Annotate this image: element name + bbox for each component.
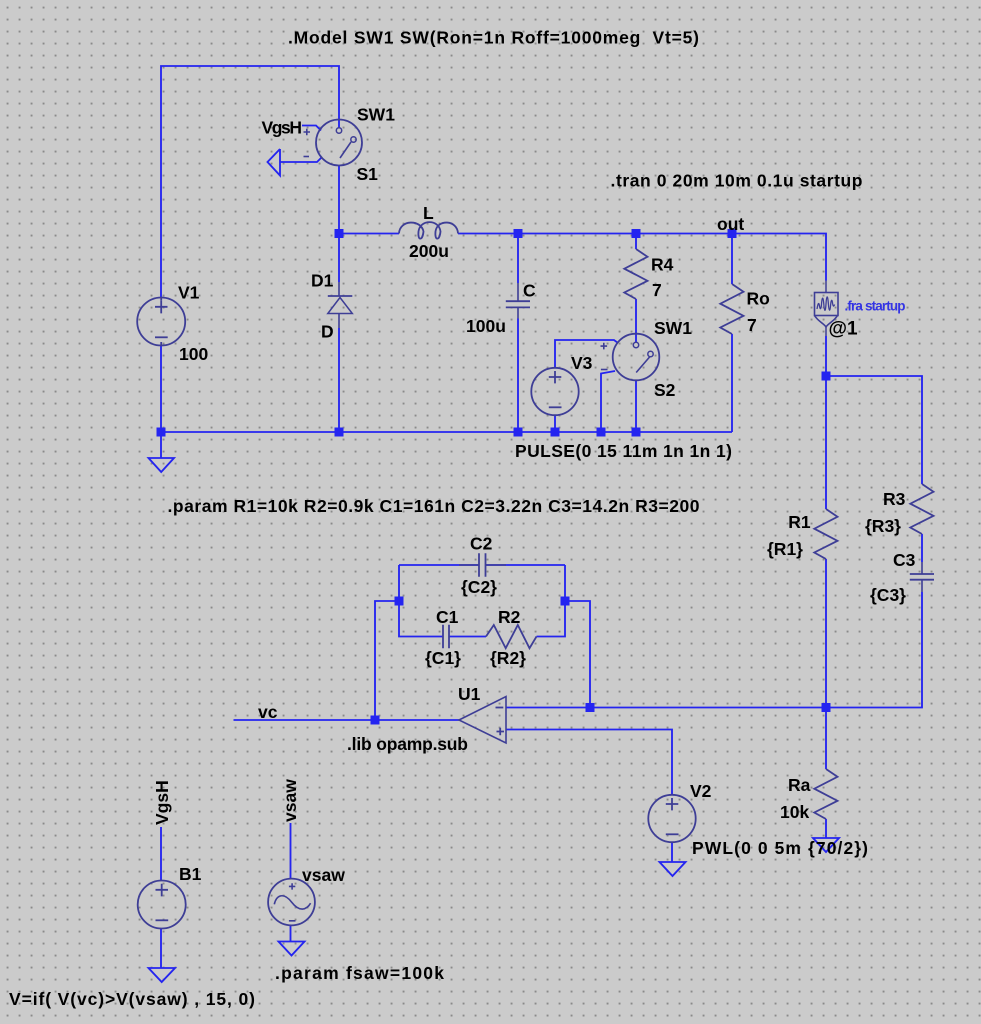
svg-text:V1: V1 [178,283,200,303]
svg-text:out: out [717,214,744,234]
svg-text:10k: 10k [780,802,809,822]
svg-text:D1: D1 [311,271,334,291]
svg-text:.param fsaw=100k: .param fsaw=100k [275,963,444,983]
svg-text:B1: B1 [179,864,202,884]
svg-text:C: C [523,280,536,300]
svg-text:V2: V2 [690,781,712,801]
svg-text:Ra: Ra [788,775,811,795]
svg-text:{R2}: {R2} [490,648,526,668]
svg-text:vc: vc [258,702,278,722]
svg-text:SW1: SW1 [357,105,395,125]
svg-text:C3: C3 [893,550,916,570]
svg-text:7: 7 [747,315,757,335]
svg-text:{C2}: {C2} [461,577,497,597]
svg-text:@1: @1 [829,319,859,340]
svg-text:{C1}: {C1} [425,648,461,668]
svg-text:100: 100 [179,344,208,364]
svg-text:R2: R2 [498,607,521,627]
svg-text:VgsH: VgsH [262,118,303,138]
svg-text:{R1}: {R1} [767,539,803,559]
svg-text:.tran 0 20m 10m 0.1u startup: .tran 0 20m 10m 0.1u startup [611,171,863,191]
svg-text:PWL(0 0 5m {70/2}): PWL(0 0 5m {70/2}) [692,838,868,858]
svg-text:vsaw: vsaw [280,779,300,822]
svg-text:S1: S1 [357,164,379,184]
svg-text:R3: R3 [883,489,906,509]
svg-text:V3: V3 [571,353,593,373]
svg-text:SW1: SW1 [654,318,692,338]
svg-text:PULSE(0 15 11m 1n 1n 1): PULSE(0 15 11m 1n 1n 1) [515,441,732,461]
svg-text:.fra startup: .fra startup [845,299,906,314]
svg-text:vsaw: vsaw [302,865,345,885]
svg-text:200u: 200u [409,241,449,261]
svg-text:U1: U1 [458,684,481,704]
svg-text:.lib opamp.sub: .lib opamp.sub [347,734,468,754]
svg-text:{R3}: {R3} [865,516,901,536]
svg-text:C2: C2 [470,534,493,554]
svg-text:100u: 100u [466,316,506,336]
svg-text:R4: R4 [651,254,674,274]
svg-text:Ro: Ro [747,289,770,309]
svg-text:7: 7 [652,280,662,300]
svg-text:D: D [321,322,334,342]
svg-text:V=if( V(vc)>V(vsaw) , 15, 0): V=if( V(vc)>V(vsaw) , 15, 0) [9,989,255,1009]
svg-text:.param R1=10k R2=0.9k C1=161n: .param R1=10k R2=0.9k C1=161n C2=3.22n C… [168,496,700,516]
svg-text:S2: S2 [654,380,676,400]
svg-text:{C3}: {C3} [870,585,906,605]
svg-text:.Model SW1 SW(Ron=1n Roff=1000: .Model SW1 SW(Ron=1n Roff=1000meg Vt=5) [288,28,699,48]
svg-text:C1: C1 [436,607,459,627]
svg-text:VgsH: VgsH [152,780,172,825]
svg-text:L: L [423,203,434,223]
svg-text:R1: R1 [788,512,811,532]
